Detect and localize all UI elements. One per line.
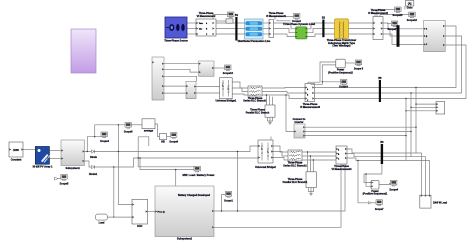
svg-text:Subsystem1: Subsystem1 (66, 167, 81, 170)
svg-text:Series RLC Branch2: Series RLC Branch2 (243, 100, 267, 103)
svg-text:Load: Load (99, 221, 105, 224)
svg-text:Three-Phase Dynamic Load: Three-Phase Dynamic Load (283, 23, 315, 26)
svg-text:Scope13: Scope13 (223, 72, 234, 75)
svg-text:From Ip: From Ip (158, 211, 166, 213)
svg-text:VI Measurement3: VI Measurement3 (300, 106, 321, 109)
svg-text:[A]: [A] (408, 3, 412, 6)
svg-text:Universal Bridge1: Universal Bridge1 (216, 100, 237, 103)
svg-text:Constant: Constant (11, 159, 22, 162)
svg-text:(Two Windings): (Two Windings) (333, 45, 351, 48)
svg-text:1000 W Load: 1000 W Load (433, 202, 448, 204)
svg-text:(Positive-Sequence)2: (Positive-Sequence)2 (328, 71, 353, 74)
svg-text:Vabc: Vabc (199, 23, 203, 25)
svg-text:1000: 1000 (13, 148, 19, 152)
svg-text:Parallel RLC Branch: Parallel RLC Branch (246, 111, 270, 114)
svg-text:Parallel RLC Branch1: Parallel RLC Branch1 (283, 181, 308, 184)
svg-text:Diode: Diode (90, 156, 97, 159)
svg-text:average: average (144, 129, 154, 132)
svg-text:Subsystem2: Subsystem2 (177, 237, 193, 241)
svg-text:Iabc: Iabc (199, 29, 202, 31)
svg-text:Scope8: Scope8 (124, 131, 133, 134)
svg-text:Distributed Parameters Line: Distributed Parameters Line (238, 40, 271, 43)
svg-text:VI Measurement1: VI Measurement1 (266, 15, 287, 18)
svg-text:Inverter: Inverter (295, 121, 304, 124)
svg-text:Diode1: Diode1 (89, 173, 98, 176)
svg-text:VI Measurement: VI Measurement (197, 15, 216, 18)
svg-text:Scope5: Scope5 (60, 183, 69, 186)
svg-text:Scope10: Scope10 (392, 14, 403, 17)
svg-text:VI Measurement2: VI Measurement2 (368, 12, 389, 15)
svg-text:Scope9: Scope9 (169, 141, 178, 144)
svg-text:(Positive-Sequence)1: (Positive-Sequence)1 (363, 193, 388, 196)
svg-text:Scope4: Scope4 (100, 140, 109, 143)
svg-text:30 kW PV Array 1: 30 kW PV Array 1 (33, 166, 54, 169)
svg-text:VI Measurement4: VI Measurement4 (331, 168, 352, 171)
svg-text:Goto: Goto (407, 7, 413, 10)
svg-text:Series RLC Branch1: Series RLC Branch1 (283, 164, 307, 167)
svg-text:SOC: SOC (137, 225, 143, 228)
svg-text:Universal Bridge2: Universal Bridge2 (255, 166, 276, 169)
svg-text:Scope4: Scope4 (389, 188, 398, 191)
svg-text:HB: HB (161, 141, 165, 144)
svg-text:Scope16: Scope16 (407, 19, 418, 22)
svg-text:Scope1: Scope1 (224, 200, 233, 203)
svg-text:Battery Charged Developed: Battery Charged Developed (178, 194, 210, 197)
svg-text:Three-Phase Source: Three-Phase Source (164, 40, 188, 43)
svg-text:MW: Load / Battery Power: MW: Load / Battery Power (183, 173, 215, 177)
svg-text:Scope 8: Scope 8 (354, 68, 364, 71)
svg-text:Scope3: Scope3 (339, 86, 348, 89)
svg-text:Scope7: Scope7 (375, 208, 384, 211)
